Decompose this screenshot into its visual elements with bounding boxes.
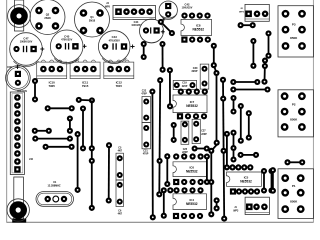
svg-text:J10: J10	[29, 158, 34, 161]
capacitor C47	[10, 33, 45, 67]
svg-text:NE5532: NE5532	[186, 202, 198, 206]
svg-text:NE5532: NE5532	[186, 104, 198, 108]
wire t41	[192, 145, 210, 151]
wire t29	[246, 110, 252, 141]
connector J10	[10, 92, 33, 175]
wire t34	[238, 152, 259, 158]
svg-text:12.288MHZ: 12.288MHZ	[47, 184, 61, 187]
wire t22	[214, 197, 220, 211]
transistor Q1	[75, 2, 110, 37]
capacitor C43	[98, 31, 134, 64]
svg-text:P2: P2	[292, 102, 296, 106]
wire t35	[261, 168, 267, 194]
potentiometer P3	[278, 6, 314, 57]
wire t40	[161, 187, 167, 219]
capacitor C25	[181, 121, 189, 154]
wire t21	[220, 77, 227, 222]
transistor Q2	[30, 0, 65, 35]
wire t38	[270, 167, 276, 194]
wire t9	[43, 144, 75, 150]
wire t36	[268, 168, 274, 194]
wire t37	[284, 159, 305, 165]
potentiometer P1	[278, 169, 314, 219]
wire t15	[106, 142, 112, 203]
wire t10	[67, 115, 73, 133]
capacitor C22	[141, 89, 150, 122]
connector J4	[105, 2, 155, 19]
capacitor C5	[116, 146, 124, 180]
capacitor C19	[173, 80, 196, 89]
svg-text:7905: 7905	[48, 84, 55, 88]
wire t18	[164, 153, 170, 187]
svg-text:470U/35V: 470U/35V	[61, 39, 72, 42]
svg-text:WP3: WP3	[239, 11, 245, 13]
capacitor C42	[159, 1, 193, 22]
wire t42	[171, 122, 177, 143]
svg-text:WP3: WP3	[233, 210, 239, 212]
svg-text:220P: 220P	[191, 69, 197, 73]
svg-text:4N7: 4N7	[118, 212, 123, 215]
wire t20	[208, 43, 220, 218]
wire t16	[149, 88, 156, 220]
capacitor C27	[192, 119, 207, 143]
op-amp IC6	[173, 153, 207, 185]
svg-text:220P: 220P	[201, 133, 207, 136]
svg-text:850K: 850K	[290, 36, 298, 40]
capacitor C6	[116, 180, 124, 215]
wire t11	[75, 131, 81, 193]
svg-text:NE5532: NE5532	[240, 179, 252, 183]
svg-text:470U/35V: 470U/35V	[109, 39, 120, 42]
regulator IC12	[104, 60, 134, 88]
wire t19	[204, 153, 210, 185]
wire t25	[230, 95, 236, 115]
svg-text:7915: 7915	[82, 84, 89, 88]
svg-text:Q1: Q1	[90, 15, 94, 19]
capacitor C44	[131, 19, 164, 43]
connector J1	[233, 197, 269, 214]
wire t24	[230, 86, 270, 92]
wire t33	[238, 22, 256, 28]
svg-text:2N18: 2N18	[44, 16, 51, 20]
wire t8	[32, 136, 73, 142]
wire t27	[230, 130, 236, 163]
wire t5	[32, 78, 38, 103]
regulator IC11	[70, 60, 100, 88]
op-amp IC8	[181, 13, 212, 43]
svg-text:C46: C46	[7, 66, 12, 69]
svg-text:2N18: 2N18	[89, 19, 96, 23]
regulator IC10	[37, 60, 67, 88]
wire t4	[167, 67, 173, 109]
wire t32	[261, 57, 268, 84]
wire t30	[250, 38, 256, 69]
RCA jack J6	[7, 199, 29, 221]
wire t14	[80, 105, 86, 151]
svg-text:100U/25V: 100U/25V	[131, 25, 142, 27]
svg-text:NE5532: NE5532	[192, 28, 204, 32]
capacitor C21	[142, 123, 151, 156]
svg-text:470P: 470P	[143, 153, 149, 156]
svg-text:C44: C44	[134, 20, 139, 24]
op-amp IC7	[173, 89, 208, 120]
op-amp IC4	[167, 187, 206, 219]
svg-text:7815: 7815	[116, 84, 123, 88]
op-amp IC5	[227, 164, 262, 194]
wire t13	[89, 100, 95, 211]
svg-text:220P: 220P	[182, 85, 188, 88]
wire t3	[159, 41, 165, 73]
wire t7	[32, 128, 52, 134]
wire t28	[238, 103, 244, 144]
svg-text:P3: P3	[292, 22, 296, 26]
svg-text:850K: 850K	[290, 200, 298, 204]
svg-text:P1: P1	[292, 184, 296, 188]
capacitor C45	[50, 30, 86, 64]
wire t31	[265, 30, 271, 58]
svg-text:850K: 850K	[290, 118, 298, 122]
capacitor C20	[191, 64, 208, 89]
capacitor C46	[6, 65, 31, 93]
connector J2	[239, 4, 269, 21]
svg-text:470P: 470P	[141, 92, 147, 95]
wire t12	[76, 97, 95, 104]
svg-text:1000U/16V: 1000U/16V	[20, 41, 33, 44]
potentiometer P2	[278, 90, 314, 137]
wire t23	[230, 79, 260, 85]
crystal X1	[36, 181, 74, 206]
svg-text:NE5532: NE5532	[186, 169, 198, 173]
wire t3b	[156, 77, 163, 197]
wire t6	[45, 105, 75, 111]
wire t2 diagonal	[158, 19, 175, 36]
svg-text:Q2: Q2	[46, 13, 50, 17]
svg-text:4N7: 4N7	[118, 149, 123, 152]
svg-text:100U/25V: 100U/25V	[182, 6, 193, 9]
wire t1	[141, 41, 147, 60]
svg-text:MP5: MP5	[105, 6, 111, 9]
wire t26	[224, 131, 230, 171]
RCA jack J5	[8, 5, 31, 28]
RCA jack J5 body	[15, 0, 24, 31]
RCA jack J6 body	[12, 177, 26, 223]
